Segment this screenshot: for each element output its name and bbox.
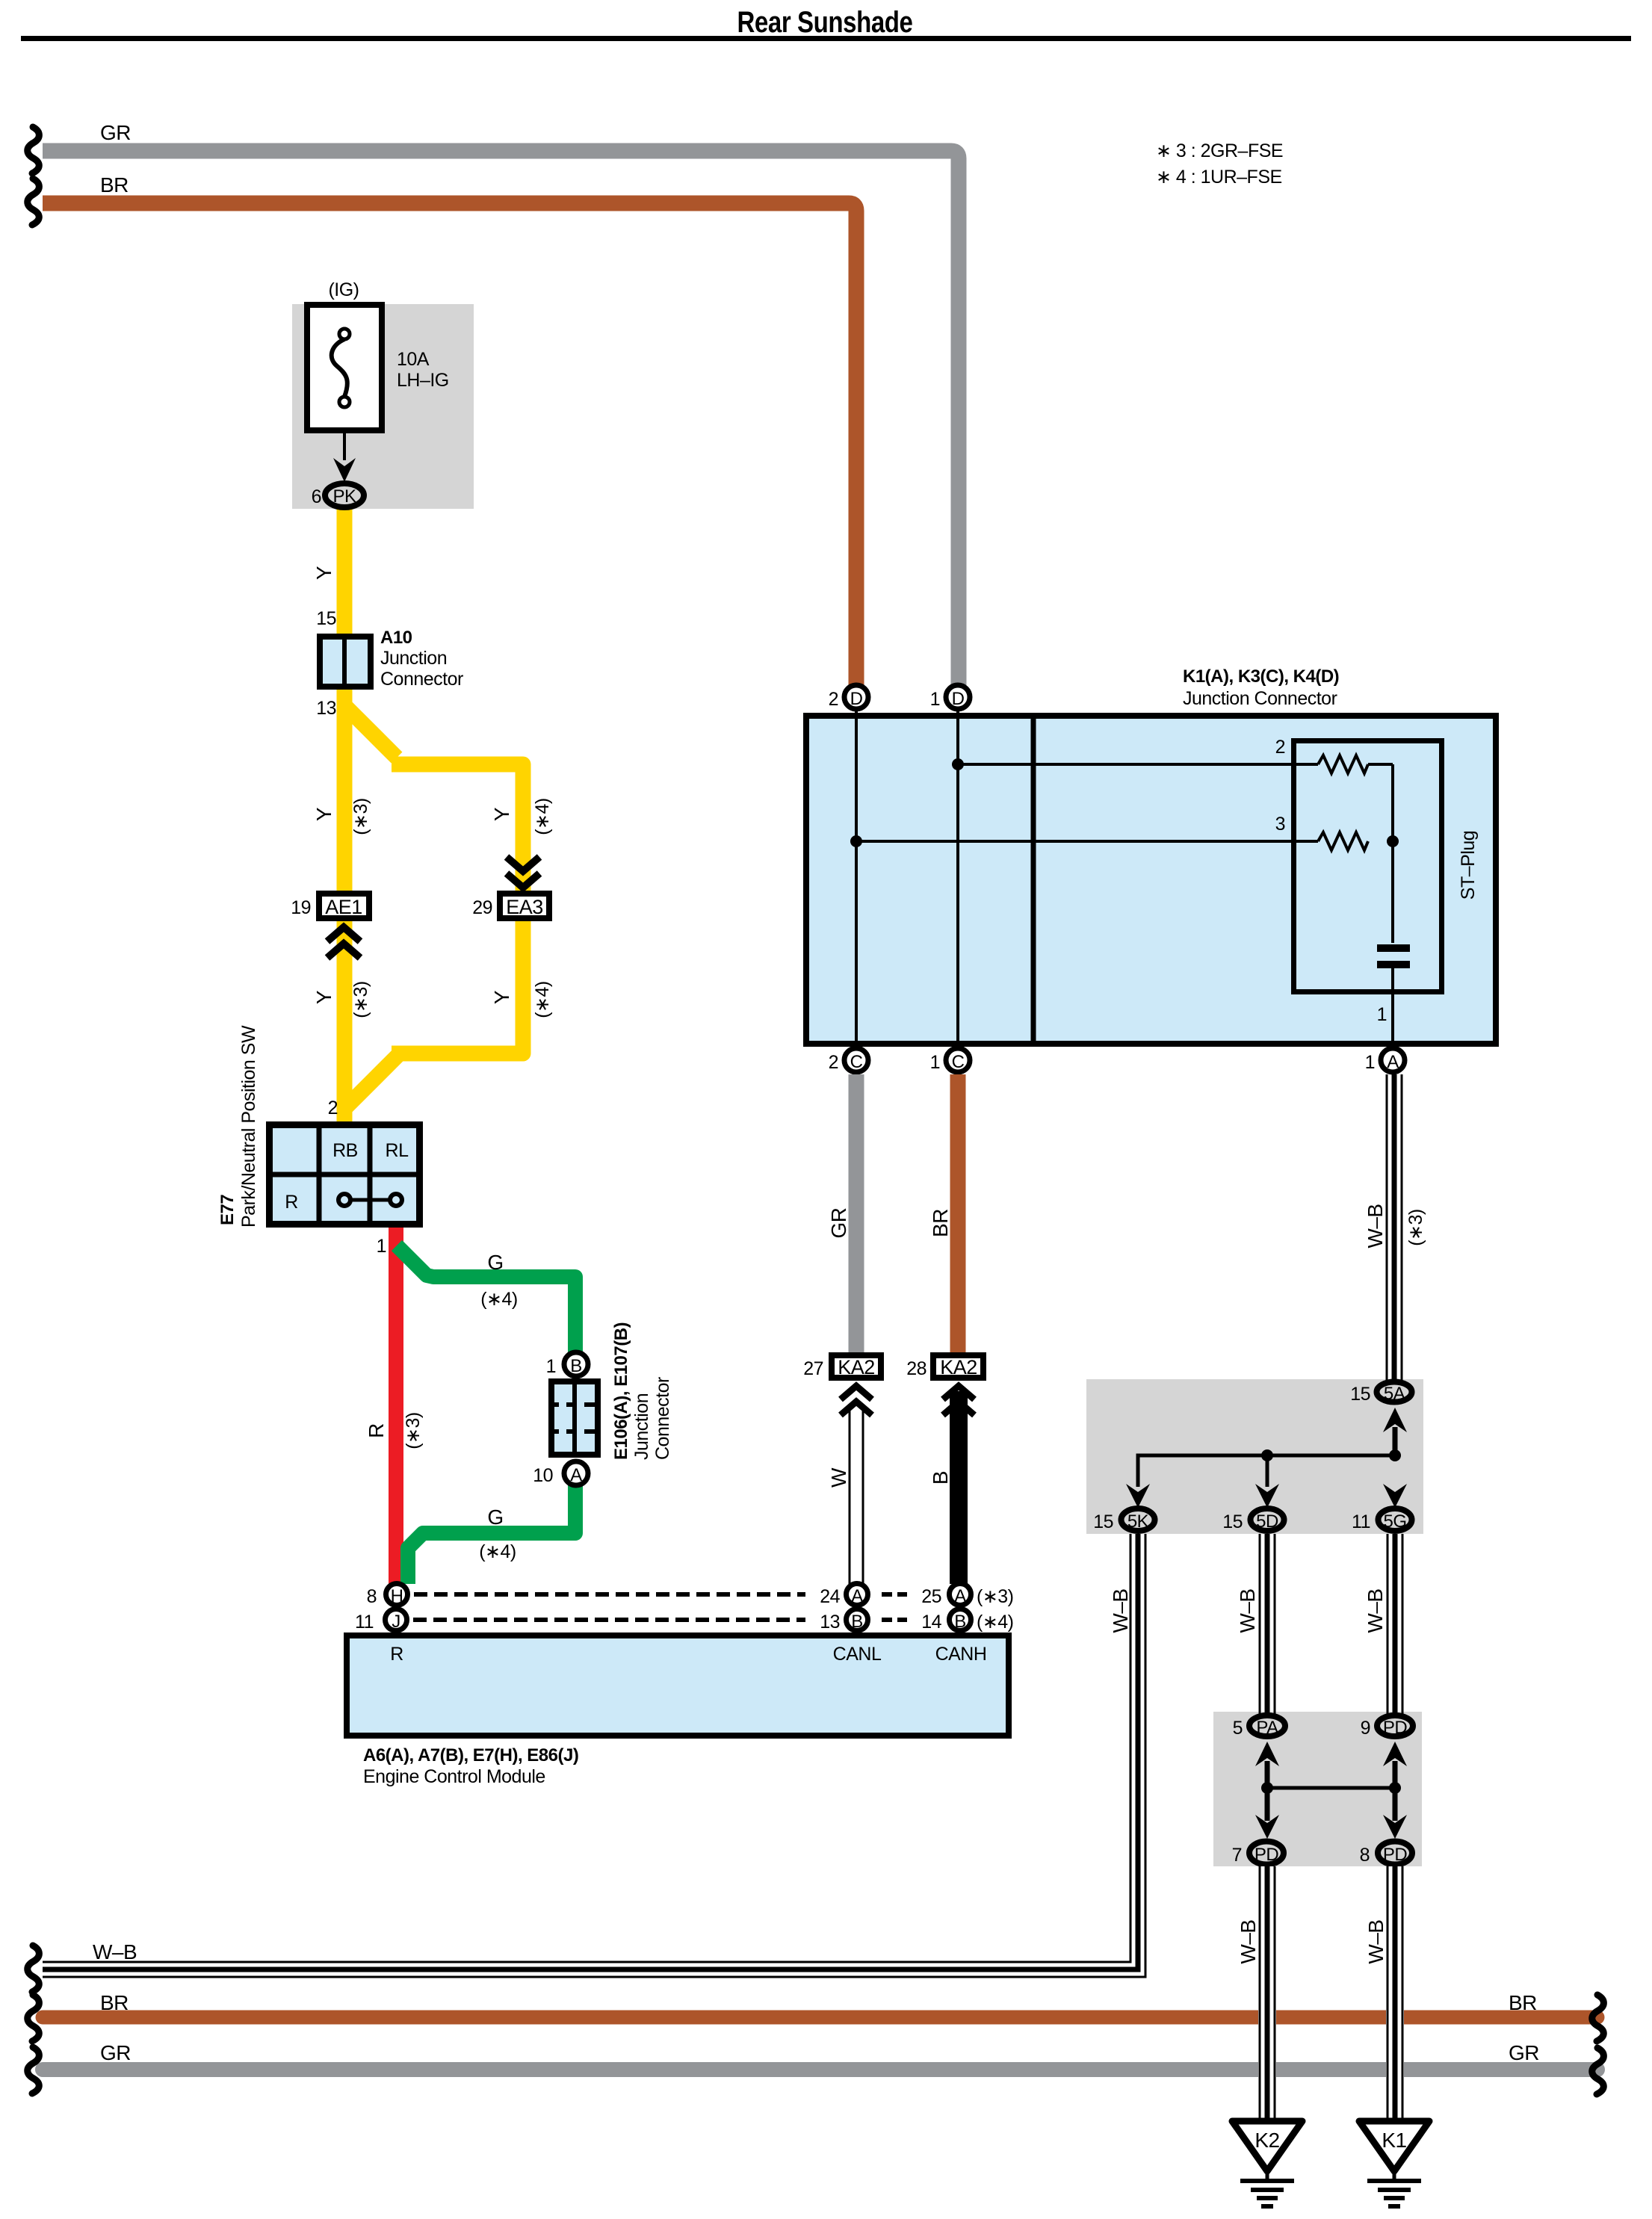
bus line between PA and PD columns: [1267, 1786, 1395, 1790]
svg-text:Junction: Junction: [380, 648, 447, 669]
svg-text:15: 15: [1350, 1384, 1370, 1405]
connector pin 15 5D oval: [1251, 1508, 1284, 1531]
svg-text:K1(A), K3(C), K4(D): K1(A), K3(C), K4(D): [1183, 666, 1339, 687]
svg-text:A6(A), A7(B), E7(H), E86(J): A6(A), A7(B), E7(H), E86(J): [363, 1745, 578, 1765]
wire capacitor to pin 1: [1391, 967, 1394, 1047]
svg-text:CANL: CANL: [833, 1644, 882, 1665]
connector pin 15 5A oval: [1377, 1382, 1412, 1402]
wire W-B from 7PD to ground K2: white underlay + triple line: [1258, 1866, 1276, 2123]
K1 internal divider: [1031, 713, 1036, 1047]
switch contact in E77: [351, 1198, 389, 1202]
connector pin 7 PD oval: [1249, 1842, 1284, 1865]
double chevron below KA2 28 (pointing up): [943, 1386, 974, 1415]
ST-Plug box: [1294, 741, 1442, 992]
svg-text:R: R: [285, 1192, 298, 1213]
wire B black to pin 25A: [950, 1391, 968, 1584]
svg-text:AE1: AE1: [325, 896, 362, 918]
svg-text:27: 27: [803, 1358, 823, 1379]
connector pin 11 5G oval: [1379, 1508, 1412, 1531]
svg-text:PD: PD: [1383, 1718, 1408, 1738]
svg-text:(∗4): (∗4): [532, 798, 553, 835]
double chevron into EA3 (pointing down): [507, 857, 539, 888]
svg-text:1: 1: [546, 1356, 556, 1377]
fuse terminal bottom circle: [339, 397, 350, 407]
svg-text:25: 25: [921, 1586, 941, 1607]
svg-text:1: 1: [930, 689, 940, 710]
wire GR vertical C to KA2: [849, 1074, 864, 1354]
squiggle W-B left end: [28, 1946, 40, 1992]
svg-text:1: 1: [930, 1052, 940, 1073]
svg-text:PK: PK: [332, 486, 356, 507]
double chevron below AE1 (pointing up): [327, 927, 360, 958]
svg-text:(∗3): (∗3): [403, 1412, 424, 1449]
connector 29 EA3 box: [500, 894, 549, 918]
ground bus line in gray box: [1138, 1427, 1395, 1487]
connector pin 1 B oval (E106): [564, 1352, 588, 1376]
svg-text:1: 1: [1377, 1004, 1387, 1025]
squiggle GR right end bottom: [1592, 2048, 1604, 2094]
connector pin 11 J oval: [386, 1609, 407, 1631]
arrow down into PD 8: [1383, 1815, 1407, 1839]
connector 27 KA2 box: [832, 1355, 881, 1378]
svg-text:PD: PD: [1383, 1845, 1408, 1865]
svg-text:K1: K1: [1382, 2129, 1406, 2152]
junction connector K1(A),K3(C),K4(D) box: [806, 716, 1496, 1044]
svg-text:W–B: W–B: [1364, 1204, 1387, 1248]
arrow up into 5A: [1383, 1408, 1407, 1432]
svg-text:(∗3): (∗3): [1405, 1209, 1426, 1246]
svg-text:5K: 5K: [1127, 1511, 1149, 1532]
junction connector A10 box: [320, 637, 371, 687]
node dot on line D2: [850, 835, 862, 847]
svg-text:D: D: [850, 689, 863, 709]
svg-text:W–B: W–B: [1237, 1919, 1260, 1963]
svg-text:15: 15: [1222, 1511, 1243, 1532]
arrow from fuse to PK: [343, 433, 346, 460]
connector pin 9 PD oval: [1377, 1715, 1413, 1736]
wire BR top horizontal: [43, 203, 856, 690]
wire G green upper from red wire to E106 pin B: [397, 1245, 575, 1360]
connector pin 25 A oval: [950, 1584, 971, 1606]
svg-text:R: R: [365, 1423, 388, 1438]
svg-text:3: 3: [1275, 814, 1285, 835]
switch E77 Park/Neutral Position SW box: [270, 1125, 420, 1225]
dashes 13B to 14B: [882, 1618, 907, 1622]
svg-text:PA: PA: [1256, 1718, 1278, 1738]
svg-text:∗ 3 : 2GR–FSE: ∗ 3 : 2GR–FSE: [1156, 140, 1283, 161]
svg-text:GR: GR: [100, 121, 131, 144]
svg-text:5D: 5D: [1256, 1511, 1278, 1532]
svg-text:B: B: [954, 1612, 966, 1632]
node dot on line D1: [952, 758, 964, 770]
connector pin 13 B oval: [847, 1609, 868, 1631]
svg-text:1: 1: [377, 1236, 386, 1257]
svg-text:CANH: CANH: [935, 1644, 987, 1665]
svg-text:W–B: W–B: [1109, 1588, 1132, 1632]
node dot bus at 5D: [1261, 1449, 1273, 1461]
shaded fuse block background: [292, 304, 474, 509]
wire Y(*4) branch: diagonal from main to right run: [344, 705, 397, 758]
connector pin 1 C oval: [946, 1048, 970, 1072]
svg-text:(∗3): (∗3): [350, 798, 371, 835]
squiggle BR left end bottom: [28, 1995, 40, 2041]
dashed line J to 13B: [413, 1618, 805, 1622]
squiggle GR left end bottom: [28, 2047, 40, 2093]
svg-text:BR: BR: [929, 1209, 952, 1237]
svg-text:GR: GR: [827, 1208, 850, 1239]
svg-text:24: 24: [820, 1586, 840, 1607]
svg-text:H: H: [391, 1586, 403, 1606]
svg-text:(IG): (IG): [328, 279, 359, 300]
svg-text:Rear Sunshade: Rear Sunshade: [737, 6, 913, 39]
fuse box 10A LH-IG: [307, 305, 382, 430]
resistor 3 zigzag: [1318, 832, 1368, 850]
svg-text:2: 2: [1275, 737, 1285, 758]
svg-text:E106(A), E107(B): E106(A), E107(B): [611, 1322, 631, 1460]
svg-text:2: 2: [829, 689, 838, 710]
svg-text:9: 9: [1361, 1718, 1370, 1739]
svg-text:11: 11: [355, 1612, 374, 1632]
capacitor plates: [1377, 944, 1410, 952]
svg-text:1: 1: [1365, 1052, 1375, 1073]
svg-text:19: 19: [291, 897, 311, 918]
svg-text:GR: GR: [1509, 2041, 1539, 2064]
connector pin 15 5K oval: [1122, 1508, 1155, 1531]
svg-text:5: 5: [1233, 1718, 1243, 1739]
svg-text:Y: Y: [312, 566, 335, 580]
svg-text:∗ 4 : 1UR–FSE: ∗ 4 : 1UR–FSE: [1156, 167, 1282, 188]
svg-text:5A: 5A: [1384, 1384, 1405, 1404]
svg-text:(∗4): (∗4): [480, 1289, 518, 1310]
wire W-B from 5K down and left to edge: triple line: [43, 1534, 1130, 1962]
svg-text:Y: Y: [312, 990, 335, 1004]
svg-text:14: 14: [921, 1612, 941, 1632]
svg-text:KA2: KA2: [940, 1356, 977, 1378]
ground K2: [1232, 2121, 1302, 2171]
svg-text:8: 8: [367, 1586, 377, 1607]
fuse terminal top circle: [339, 329, 350, 339]
svg-text:W–B: W–B: [93, 1940, 137, 1963]
svg-text:Y: Y: [490, 990, 513, 1004]
svg-text:15: 15: [316, 608, 336, 629]
svg-text:28: 28: [906, 1358, 926, 1379]
squiggle BR right end bottom: [1592, 1995, 1604, 2041]
resistor 2 zigzag: [1318, 755, 1368, 773]
svg-text:R: R: [390, 1644, 403, 1665]
svg-text:10A: 10A: [397, 349, 430, 370]
connector pin 6 PK oval: [325, 483, 364, 507]
svg-text:RB: RB: [332, 1140, 358, 1161]
svg-text:KA2: KA2: [838, 1356, 875, 1378]
wire BR bottom horizontal: [43, 2011, 1597, 2025]
wire W-B from 5D down to PA: triple line: [1259, 1534, 1261, 1714]
svg-text:PD: PD: [1255, 1845, 1279, 1865]
node dot bus at 5G: [1389, 1449, 1401, 1461]
svg-text:A: A: [1387, 1052, 1399, 1072]
svg-text:Junction Connector: Junction Connector: [1183, 688, 1337, 709]
svg-text:A: A: [851, 1586, 863, 1606]
svg-text:W–B: W–B: [1364, 1588, 1387, 1632]
connector pin 10 A oval (E106): [564, 1461, 588, 1485]
arrow down into 5D: [1255, 1484, 1279, 1508]
svg-text:(∗4): (∗4): [532, 981, 553, 1018]
shafts down: [1265, 1788, 1270, 1821]
svg-text:RL: RL: [386, 1140, 409, 1161]
ECM box: [347, 1635, 1009, 1736]
wire resistor2 to vertical: [1368, 763, 1393, 766]
arrow down into 5G: [1383, 1484, 1407, 1508]
svg-text:G: G: [487, 1505, 503, 1529]
K1 pass-through line D1-C1: [956, 711, 959, 1046]
connector pin 1 D oval: [946, 685, 970, 709]
dashes 24A to 25A: [882, 1592, 907, 1597]
svg-text:W–B: W–B: [1364, 1919, 1388, 1963]
svg-text:(∗4): (∗4): [977, 1612, 1014, 1632]
junction connector E106/E107 box: [551, 1381, 598, 1455]
svg-text:8: 8: [1360, 1845, 1370, 1866]
connector pin 8 H oval: [386, 1584, 408, 1606]
svg-text:G: G: [487, 1251, 503, 1274]
connector pin 2 C oval: [844, 1048, 868, 1072]
svg-text:Y: Y: [312, 807, 335, 821]
svg-text:W: W: [827, 1467, 850, 1488]
ground K1: [1359, 2121, 1429, 2171]
wire GR top horizontal: [43, 151, 959, 690]
svg-text:11: 11: [1352, 1511, 1370, 1532]
wire W-B from 8PD to ground K1: white underlay + triple line: [1386, 1866, 1404, 2123]
wire to resistor 2: [958, 763, 1318, 766]
arrow up into PA: [1255, 1742, 1279, 1766]
svg-text:A: A: [954, 1586, 966, 1606]
wire Y yellow from fuse PK down to A10: [337, 495, 353, 641]
wire Y(*4) below EA3 back to main: [392, 921, 523, 1053]
squiggle BR left end: [28, 179, 40, 225]
svg-text:(∗3): (∗3): [350, 981, 371, 1018]
svg-text:29: 29: [472, 897, 492, 918]
gray shaded junction box 5A/5K/5D/5G: [1086, 1379, 1423, 1534]
svg-text:D: D: [952, 689, 965, 709]
svg-text:Connector: Connector: [380, 669, 463, 690]
wire W-B (*3) from A down to 5A: triple line: [1386, 1074, 1388, 1381]
svg-text:B: B: [570, 1356, 582, 1376]
connector pin 1 A oval (ST-plug out): [1381, 1048, 1405, 1072]
dashed line H to 24A: [414, 1592, 805, 1597]
connector pin 2 D oval: [844, 685, 868, 709]
svg-text:B: B: [929, 1471, 952, 1485]
svg-text:C: C: [952, 1052, 965, 1072]
connector 28 KA2 box: [933, 1355, 983, 1378]
svg-text:BR: BR: [100, 173, 129, 196]
svg-text:E77: E77: [217, 1195, 238, 1225]
svg-text:EA3: EA3: [506, 896, 543, 918]
double chevron below KA2 27 (pointing up): [841, 1386, 872, 1415]
svg-text:BR: BR: [1509, 1991, 1537, 2014]
svg-text:5G: 5G: [1383, 1511, 1406, 1532]
svg-text:10: 10: [533, 1465, 553, 1486]
connector pin 14 B oval: [950, 1609, 971, 1631]
svg-text:J: J: [392, 1612, 400, 1632]
wire R red from E77 pin1 to ECM pin H: [389, 1228, 403, 1588]
node dot right: [1389, 1782, 1401, 1794]
arrow down into 5K: [1126, 1484, 1150, 1508]
svg-text:Connector: Connector: [652, 1377, 673, 1460]
svg-text:13: 13: [316, 698, 336, 719]
fuse element curve: [332, 339, 347, 397]
svg-text:A: A: [570, 1465, 582, 1485]
svg-text:15: 15: [1093, 1511, 1113, 1532]
svg-text:BR: BR: [100, 1991, 129, 2014]
svg-text:GR: GR: [100, 2041, 131, 2064]
svg-text:(∗4): (∗4): [479, 1541, 516, 1562]
wire W-B from 5G down to PD: triple line: [1387, 1534, 1389, 1714]
wire Y yellow below A10 main line to E77 pin 2: [337, 682, 353, 1121]
svg-text:13: 13: [820, 1612, 840, 1632]
svg-text:(∗3): (∗3): [977, 1586, 1014, 1607]
svg-text:W–B: W–B: [1236, 1588, 1259, 1632]
svg-text:A10: A10: [380, 628, 412, 648]
wire GR bottom horizontal: [43, 2062, 1597, 2077]
svg-text:Engine Control Module: Engine Control Module: [363, 1766, 545, 1787]
svg-text:Park/Neutral Position SW: Park/Neutral Position SW: [238, 1025, 259, 1228]
svg-text:LH–IG: LH–IG: [397, 370, 449, 391]
connector 19 AE1 box: [319, 894, 369, 918]
vertical wire to capacitor: [1391, 764, 1394, 943]
svg-text:Y: Y: [490, 807, 513, 821]
connector pin 5 PA oval: [1249, 1715, 1285, 1736]
svg-text:2: 2: [829, 1052, 838, 1073]
svg-text:2: 2: [328, 1098, 338, 1118]
wire BR vertical C to KA2: [950, 1074, 966, 1354]
K1 pass-through line D2-C2: [855, 711, 858, 1046]
svg-text:7: 7: [1232, 1845, 1242, 1866]
wire G green lower from E106 pin A back to red wire: [408, 1476, 575, 1584]
connector pin 24 A oval: [847, 1584, 868, 1606]
node dot left: [1261, 1782, 1273, 1794]
svg-text:C: C: [850, 1052, 863, 1072]
connector pin 8 PD oval: [1378, 1842, 1412, 1865]
squiggle GR left end: [28, 127, 40, 173]
title underline: [21, 36, 1631, 41]
svg-text:ST–Plug: ST–Plug: [1458, 831, 1479, 900]
wire Y(*4) right run to EA3: [392, 764, 523, 891]
svg-text:K2: K2: [1255, 2129, 1279, 2152]
wire to resistor 3: [856, 840, 1318, 843]
arrow up into PD 9: [1383, 1742, 1407, 1766]
svg-text:B: B: [851, 1612, 863, 1632]
svg-text:6: 6: [312, 486, 321, 507]
arrow down into PD 7: [1255, 1815, 1279, 1839]
node dot resistor3 junction: [1387, 835, 1399, 847]
wire W double-line to pin 24A: [849, 1409, 851, 1584]
svg-text:Junction: Junction: [631, 1393, 652, 1460]
gray shaded junction box PA/PD: [1213, 1712, 1422, 1866]
